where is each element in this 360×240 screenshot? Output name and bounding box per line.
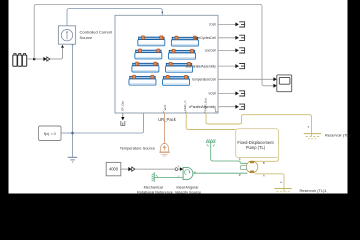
battery cell module column 1 row 3 [132,62,159,72]
ground electrical reference [68,157,77,162]
battery cell module column 1 row 1 [138,36,165,46]
controlled current source U2 [58,26,75,44]
wire trunk A battery signal to scope input 2 [34,5,273,86]
svg-text:vCell: vCell [208,92,216,96]
svg-text:Pump (TL): Pump (TL) [246,145,266,150]
wire socParallelAssembly port to terminator [218,65,236,67]
svg-text:UR_Pack: UR_Pack [158,117,177,122]
scope arrowheads [273,77,276,81]
battery signal source block [13,54,27,67]
wire converter to controlled current source signal input [50,48,63,59]
battery cell module column 2 row 2 [168,49,195,59]
converter S-PS U1 [43,57,50,61]
DF_Out arrow down [122,113,124,117]
wire vCell port to terminator [218,92,236,94]
svg-text:Velocity Source: Velocity Source [175,190,201,194]
battery pack subsystem [115,15,218,113]
wire CCS bottom terminal down [72,44,74,157]
temperature source wire [163,113,165,144]
svg-text:f(x) = 0: f(x) = 0 [44,132,56,136]
terminator iCell [235,22,244,27]
solver configuration block f(x)=0 [39,126,62,141]
wire battery to converter [27,58,44,60]
svg-text:4000: 4000 [109,167,119,172]
terminator vCell [235,91,244,96]
wire socCell port to terminator [218,49,236,51]
node solver junction [71,132,74,135]
wire temperatureCell row to scope [218,78,274,80]
pump port letters [239,158,241,177]
svg-text:numCyclesCell: numCyclesCell [194,36,216,40]
velocity source port letters [178,166,196,178]
wire CCS top to pack top port [67,9,162,26]
svg-text:iCell: iCell [209,23,216,27]
node junction on battery signal [33,58,36,61]
mechanical rotational reference MRR2 [152,172,158,182]
svg-text:socCell: socCell [205,49,216,53]
terminator socParallelAssembly [235,64,244,69]
wire converter to velocity source [135,168,175,170]
svg-text:Mechanical: Mechanical [144,186,163,190]
svg-text:Reservoir (TL): Reservoir (TL) [325,133,351,138]
wire solver config to junction [61,132,73,134]
svg-text:Rotational Reference: Rotational Reference [137,190,173,194]
svg-text:Fixed-Displacement: Fixed-Displacement [237,140,274,145]
battery cell module column 1 row 2 [135,49,162,59]
wire velocity source R to pump R [193,172,248,174]
wire junction to pack bottom port [73,113,144,133]
battery cell module column 2 row 1 [171,36,198,46]
wire 4000 to converter [121,168,129,170]
svg-text:temperatureCell: temperatureCell [192,78,216,82]
mechanical rotational reference MRR1 [206,139,216,146]
svg-text:DF_Out: DF_Out [121,101,125,111]
pack right port labels [185,23,216,109]
battery cell module column 1 row 4 [129,75,156,85]
terminator below pack [121,121,125,126]
ideal angular velocity source U6 [183,167,193,179]
svg-text:FlwR_Out: FlwR_Out [203,98,207,111]
constant block 4000 [106,162,121,175]
battery cell module column 2 row 4 [163,75,190,85]
thermal liquid line B pack to pump B [186,113,236,130]
reservoir R1 [304,134,321,139]
svg-text:Reservoir (TL)1: Reservoir (TL)1 [300,188,327,193]
terminator numCyclesCell [235,35,244,40]
wire numCyclesCell port to terminator [218,37,236,39]
svg-text:FlwR_In: FlwR_In [183,100,187,111]
reservoir R2 [274,189,291,194]
pack bottom rotated port labels [121,98,208,114]
wire iCell port to terminator [218,23,236,25]
scope block [277,75,292,92]
converter S-PS U5 [128,167,135,171]
svg-text:R: R [239,174,241,177]
node pack top port [162,12,164,14]
terminator socCell [235,48,244,53]
svg-text:socParallelAssembly: socParallelAssembly [185,64,216,68]
pump U4 [240,161,257,173]
svg-text:Ideal Angular: Ideal Angular [176,186,199,190]
terminator vParallelAssembly [235,104,244,109]
wire MRR2 to velocity source C [154,177,183,179]
temperature source U3 [159,144,169,156]
thermal liquid line A pack to reservoir 1 [206,113,312,136]
svg-text:Controlled Current: Controlled Current [80,30,114,35]
pump label box [236,129,279,158]
wire MRR1 to pump C [211,142,247,163]
wire pump A port to reservoir 2 [255,174,285,192]
wire vParallelAssembly port to terminator [218,106,236,108]
battery cell module column 2 row 3 [166,62,193,72]
svg-text:Temperature Source: Temperature Source [120,146,155,151]
diagram white area [9,0,348,194]
port bracket at pack corner [216,109,219,112]
svg-text:Source: Source [80,35,93,40]
svg-text:Vent: Vent [163,105,167,111]
svg-text:C: C [239,158,241,161]
wire pump box corner to pump B port [254,158,278,162]
